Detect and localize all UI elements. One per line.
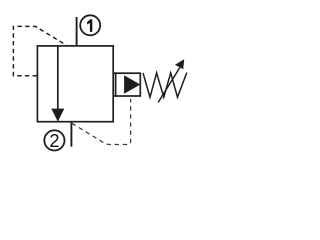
valve body square (37, 46, 113, 122)
flow arrow shaft (57, 46, 59, 110)
pilot dashed line left (from square left side, around, to top diagonal) (13, 26, 66, 75)
svg-text:2: 2 (49, 130, 59, 151)
adjustment arrowhead (175, 59, 184, 69)
poppet triangle (124, 75, 140, 94)
spring (143, 73, 187, 98)
pilot box top edge bridge to valve body (113, 72, 116, 74)
pilot poppet box (116, 73, 141, 96)
port 1 line (76, 17, 78, 46)
port 1 label (87, 19, 92, 32)
port 2 circle (44, 130, 64, 150)
adjustment arrow shaft (158, 68, 180, 103)
flow arrowhead (51, 109, 64, 122)
port 1 circle (80, 15, 100, 35)
pilot dashed line right (from port 2 to spring chamber) (72, 99, 131, 145)
pilot box bottom edge bridge to valve body (113, 95, 116, 97)
port 2 line (70, 122, 72, 147)
